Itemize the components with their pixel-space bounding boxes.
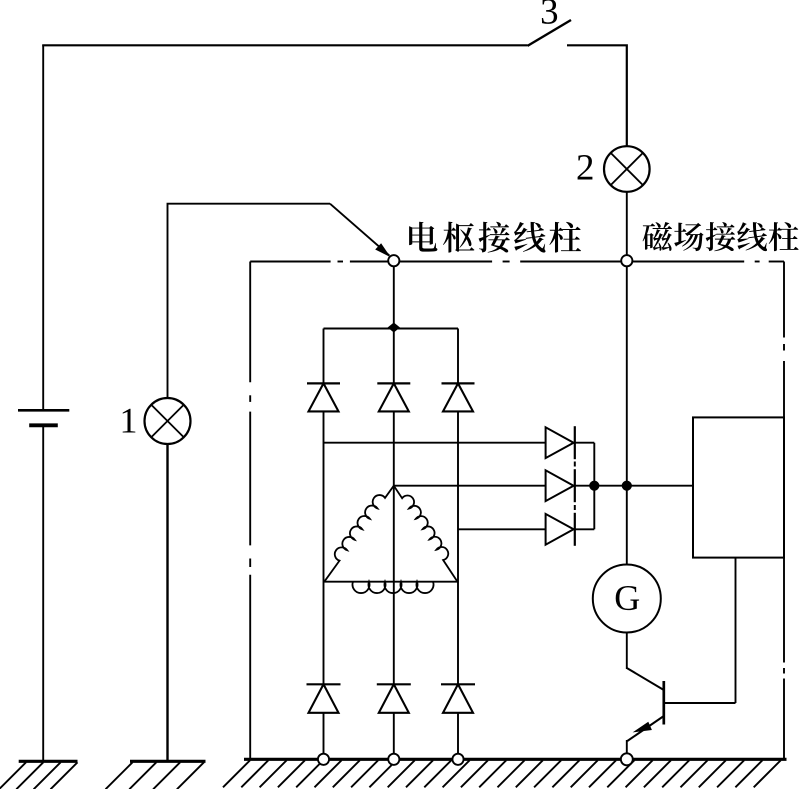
switch 3 blade [528,20,572,46]
wire: lamp 1 up and over toward armature terminal [168,204,331,398]
terminal: phase1 ground stud [318,754,329,765]
label 2 [578,155,593,179]
label 1 [123,409,136,433]
field terminal label text [643,222,799,251]
wire: arrow leader to armature terminal [330,204,389,256]
ground: alternator case [223,759,787,787]
wire: field diode D8 output to regulator [575,485,693,487]
field diode D7 [546,426,575,459]
diode D1 (positive rectifier, phase 1) [307,383,340,411]
wire: G to transistor collector [626,633,628,670]
junction: field wire node [622,481,631,490]
wire: phase 2 vertical [393,411,395,753]
alternator case boundary: top dash-dot line [250,261,784,263]
field diode D9 [546,513,575,546]
regulator box (voltage regulator) [693,417,784,557]
wire: phase3 tap to field diode D9 [458,528,546,530]
generator rotor G [593,565,661,633]
terminal: emitter ground stud [621,753,633,765]
lamp 2 [604,146,650,192]
ground: lamp 1 return [106,761,206,789]
wire: phase1 tap to field diode D7 [324,442,546,444]
wire: field terminal down to generator rotor [626,266,628,565]
terminal: phase2 ground stud [388,754,399,765]
stator winding W3 (delta bottom side) [324,581,457,583]
wire: phase 3 vertical [457,329,459,754]
wire: field diode bus vertical [593,443,595,530]
alternator case boundary: right dash-dot line [783,262,785,760]
wire: field diode D7 output [575,442,595,444]
wire: rectifier positive bus [324,328,459,330]
armature terminal label text [409,222,581,253]
diode D2 (positive rectifier, phase 2) [377,383,410,411]
wire: armature terminal down to rectifier bus [393,266,395,383]
field diode cathode tie dash-dot marks [574,462,576,511]
diode D4 (negative rectifier, phase 1) [307,684,341,713]
wire: regulator output to transistor base [735,558,737,703]
node: armature terminal (电枢接线柱) [388,255,399,266]
stator winding W1 (delta left side) [324,486,394,582]
wire: phase 1 vertical [323,329,325,754]
wire: lamp 1 to ground [166,444,168,761]
wire: field diode D9 output [575,528,595,530]
battery (short negative plate) [29,423,58,427]
transistor Q1 (regulator output stage) [627,668,736,754]
alternator case boundary: left dash-dot line [249,262,251,760]
wire: switch 3 to lamp 2 branch corner [567,45,627,146]
label 3 [542,0,557,24]
wire: delta apex tap to field diode D8 [394,485,546,487]
lamp 1 [145,398,191,444]
arrowhead at armature terminal [375,243,390,257]
stator winding W2 (delta right side) [394,486,458,582]
ground: battery negative [0,761,78,789]
diode D3 (positive rectifier, phase 3) [442,383,475,411]
terminal: phase3 ground stud [452,754,463,765]
diode D5 (negative rectifier, phase 2) [377,684,411,713]
battery (long positive plate) [18,409,69,412]
node: field terminal (磁场接线柱) [621,255,632,266]
wire: battery vertical (bottom) [42,427,44,762]
junction: rectifier positive bus [388,323,400,333]
diode D6 (negative rectifier, phase 3) [441,684,475,713]
wire: battery positive to switch 3 [42,44,527,46]
wire: lamp 2 to field terminal [626,192,628,256]
field diode D8 [546,469,575,502]
junction: field diode bus node [590,481,599,490]
wire: battery vertical (top) [42,45,44,409]
